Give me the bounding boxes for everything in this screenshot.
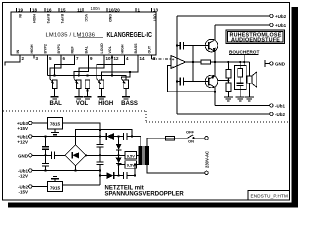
potentiometer VOL xyxy=(74,79,81,97)
IC top pin numbers xyxy=(18,8,159,13)
wire base bus vertical xyxy=(192,46,194,82)
ground (BAL) xyxy=(51,97,59,99)
svg-text:VOL: VOL xyxy=(76,101,89,107)
capacitor C9 (raw rail lower) xyxy=(97,162,104,165)
op-amp U2 xyxy=(171,56,186,69)
ground (7915) xyxy=(51,177,59,182)
svg-text:ON: ON xyxy=(188,138,194,143)
wire 7815 input xyxy=(63,123,101,138)
svg-text:VOL: VOL xyxy=(108,45,112,53)
section divider dotted xyxy=(3,111,289,122)
diode D3 (vertical upper) xyxy=(116,137,122,156)
svg-text:15: 15 xyxy=(61,8,67,13)
wire bridge minus xyxy=(75,166,77,171)
terminal +Ub2 xyxy=(270,14,273,17)
psu title NETZTEIL mit SPANNUNGSVERDOPPLER xyxy=(105,185,185,197)
svg-text:BYP1: BYP1 xyxy=(60,14,64,23)
svg-text:BAL: BAL xyxy=(85,45,89,53)
terminal -Ub2 xyxy=(270,112,273,115)
capacitor C1 (upper base) xyxy=(177,42,209,50)
bridge rectifier BR1 xyxy=(65,145,86,166)
svg-text:+: + xyxy=(172,57,175,62)
ground (speaker) xyxy=(245,97,254,101)
wire pin14 to HIGH top xyxy=(102,59,139,80)
svg-text:+Ub2: +Ub2 xyxy=(275,14,287,19)
svg-text:OUT: OUT xyxy=(148,45,152,53)
frame shadow xyxy=(8,7,298,208)
svg-text:OUT: OUT xyxy=(153,14,157,22)
svg-text:12: 12 xyxy=(114,56,120,61)
Boucherot cell box xyxy=(235,65,247,89)
regulator 7815 xyxy=(48,118,63,130)
ground (R fixed) xyxy=(83,97,91,99)
svg-text:-12V: -12V xyxy=(18,174,28,179)
resistor R2 (series output) xyxy=(201,60,211,64)
capacitor C8 (raw rail upper) xyxy=(97,145,104,148)
svg-text:10: 10 xyxy=(106,56,112,61)
svg-text:9,5V: 9,5V xyxy=(127,163,135,168)
svg-text:HIGH: HIGH xyxy=(30,44,34,53)
svg-text:IN: IN xyxy=(18,14,22,18)
supply rail vertical left xyxy=(176,16,178,114)
capacitor C5 (+Ub1 to GND) xyxy=(42,137,49,156)
svg-text:GND: GND xyxy=(18,154,29,159)
svg-text:ENDSTU_P.HTM: ENDSTU_P.HTM xyxy=(251,194,289,199)
svg-text:13: 13 xyxy=(153,8,159,13)
svg-text:VCC: VCC xyxy=(84,14,88,22)
wire row A (bridge plus) xyxy=(76,130,133,145)
terminal 230V top xyxy=(205,137,208,140)
IC bottom pin names (rotated) xyxy=(16,43,152,54)
label 9,5V (upper winding) xyxy=(125,152,137,160)
wire GND row xyxy=(32,154,52,156)
IC top pin names (rotated) xyxy=(18,14,157,23)
label 9,5V (lower winding) xyxy=(125,161,137,169)
svg-text:9,5V: 9,5V xyxy=(127,153,135,158)
regulator 7915 xyxy=(48,182,63,192)
svg-text:14: 14 xyxy=(140,56,146,61)
diode D4 (vertical lower) xyxy=(116,155,122,175)
capacitor C2 (lower base) xyxy=(177,78,209,86)
transistor Q1 xyxy=(205,25,218,62)
rail +Ub1 row xyxy=(32,136,106,138)
svg-text:16: 16 xyxy=(47,8,53,13)
svg-text:10/20: 10/20 xyxy=(109,8,121,13)
svg-text:18: 18 xyxy=(32,8,38,13)
wire pin6 to BAL wiper xyxy=(50,59,61,79)
capacitor C7 (GND to -Ub1) xyxy=(42,155,49,170)
junction dots psu top xyxy=(44,129,133,138)
wire op-amp output rail xyxy=(186,61,250,63)
wire pin10 to VOL top xyxy=(79,59,104,76)
wire tap1 (9.5V winding) xyxy=(86,154,125,156)
resistor R3 (upper of stack) xyxy=(218,62,231,83)
IC bottom pin ticks xyxy=(20,55,152,59)
wire pin7 to BAL top xyxy=(55,59,75,76)
border frame xyxy=(3,3,290,201)
wire branch to BASS wiper xyxy=(121,72,130,79)
wire bus row xyxy=(48,76,127,80)
svg-text:SPANNUNGSVERDOPPLER: SPANNUNGSVERDOPPLER xyxy=(105,191,185,197)
svg-text:7915: 7915 xyxy=(50,186,61,191)
resistor R fixed xyxy=(85,80,90,97)
wire 7915 input xyxy=(63,184,101,186)
wire tap2 (9.5V winding) xyxy=(119,164,125,166)
transformer TR1 xyxy=(139,146,150,165)
svg-text:OFF: OFF xyxy=(186,129,195,134)
svg-text:7815: 7815 xyxy=(50,122,61,127)
pot labels xyxy=(50,101,138,107)
svg-text:KLANGREGEL-IC: KLANGREGEL-IC xyxy=(107,31,153,39)
capacitor C10 (bottom row) xyxy=(123,172,135,179)
ground (Boucherot) xyxy=(236,97,245,101)
wire primary top xyxy=(132,137,141,147)
svg-text:-15V: -15V xyxy=(18,190,28,195)
capacitor C4 (top row) xyxy=(123,133,132,140)
rail raw vertical xyxy=(99,138,101,145)
svg-text:+15V: +15V xyxy=(17,126,28,131)
diode D1 xyxy=(105,133,107,140)
svg-text:BYP2: BYP2 xyxy=(44,44,48,53)
rail -Ub2 xyxy=(177,113,270,115)
IC bottom pin numbers xyxy=(22,56,157,61)
fuse F1 xyxy=(166,137,188,140)
filename box ENDSTU_P.HTM xyxy=(248,191,290,201)
svg-text:GND: GND xyxy=(275,62,286,67)
svg-text:230V-AC: 230V-AC xyxy=(204,151,209,168)
svg-text:-Ub2: -Ub2 xyxy=(275,112,285,117)
wire pin9 to VOL wiper xyxy=(74,59,89,79)
svg-text:BASS: BASS xyxy=(134,43,138,54)
ground (7815) xyxy=(51,129,59,135)
svg-text:AUDIOENDSTUFE: AUDIOENDSTUFE xyxy=(231,38,280,44)
svg-text:BASS: BASS xyxy=(121,101,138,107)
rail +Ub1 xyxy=(215,24,270,26)
svg-text:GND: GND xyxy=(108,14,112,22)
svg-text:HIGH: HIGH xyxy=(98,101,113,107)
potentiometer HIGH xyxy=(97,79,104,97)
terminal +Ub1 xyxy=(270,23,273,26)
wire pin5 to bus xyxy=(47,59,49,76)
svg-text:+Ub1: +Ub1 xyxy=(275,23,287,28)
wire riser tap2 to row D xyxy=(134,165,136,176)
svg-text:BOUCHEROT: BOUCHEROT xyxy=(229,49,260,54)
amp title box RUHESTROMLOSE AUDIOENDSTUFE xyxy=(226,30,285,44)
pot wiring weave xyxy=(48,59,139,80)
wire pin12 down xyxy=(111,59,113,76)
rail +Ub2 xyxy=(177,15,270,17)
transistor Q2 xyxy=(205,62,218,106)
wire feedback loop xyxy=(168,66,215,92)
rail -Ub1 row xyxy=(32,170,100,172)
terminal 230V bottom xyxy=(205,171,208,174)
junction dots amp xyxy=(192,61,246,93)
svg-text:HIGH: HIGH xyxy=(32,14,36,23)
speaker LS1 xyxy=(247,62,257,97)
wire secondary bottom to terminal xyxy=(147,165,205,173)
rail -Ub1 xyxy=(215,105,270,107)
wire pin4 to HIGH wiper xyxy=(97,59,125,79)
IC U1 LM1035/LM1036 tone control xyxy=(11,12,156,55)
wire signal dash-dot from IC pin8 to op-amp xyxy=(152,55,172,59)
terminal GND (amp) xyxy=(265,60,270,67)
svg-text:IN: IN xyxy=(16,50,20,54)
svg-text:BYP1: BYP1 xyxy=(57,44,61,53)
svg-text:-Ub1: -Ub1 xyxy=(275,104,285,109)
potentiometer BASS xyxy=(121,79,128,97)
svg-text:HIGH: HIGH xyxy=(121,44,125,53)
diode D2 xyxy=(106,172,113,179)
ground (HIGH) xyxy=(97,97,105,99)
svg-text:19: 19 xyxy=(18,8,24,13)
ground (VOL) xyxy=(75,97,83,99)
resistor R4 (lower of stack) xyxy=(226,83,231,97)
junction dots xyxy=(54,56,132,76)
svg-text:BYP2: BYP2 xyxy=(46,14,50,23)
resistor R5 (Boucherot) xyxy=(238,62,243,83)
switch S1 xyxy=(188,135,205,138)
svg-text:LOUD: LOUD xyxy=(100,43,104,54)
capacitor C3 (Boucherot) xyxy=(237,83,244,97)
IC top pin ticks xyxy=(17,8,152,12)
ground (R stack) xyxy=(224,97,233,101)
rail row D (lower diode row) xyxy=(100,175,106,177)
potentiometer BAL xyxy=(50,79,57,97)
svg-text:BAL: BAL xyxy=(50,101,63,107)
svg-text:11: 11 xyxy=(77,8,82,13)
svg-text:100n: 100n xyxy=(91,6,101,11)
svg-text:REF: REF xyxy=(71,46,75,54)
svg-text:+12V: +12V xyxy=(17,140,28,145)
capacitor C6 (in GND row) xyxy=(52,152,55,159)
wire pin2 input stub xyxy=(5,55,20,66)
ground (BASS) xyxy=(122,97,130,99)
wire secondary top to fuse xyxy=(147,138,166,146)
terminal -Ub1 xyxy=(270,104,273,107)
